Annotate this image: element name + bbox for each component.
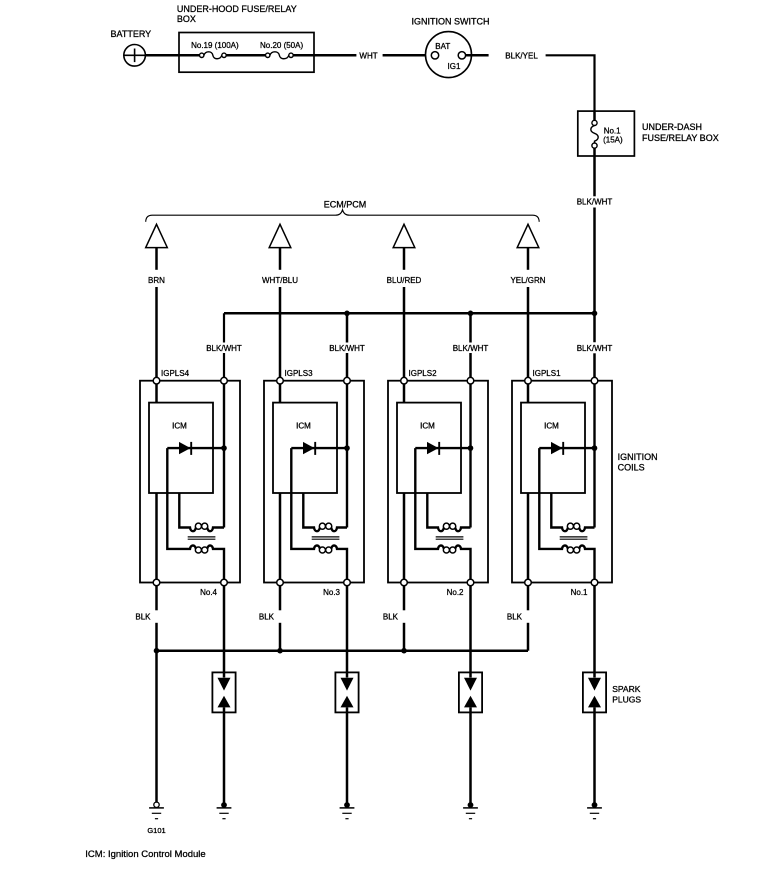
svg-text:UNDER-HOOD FUSE/RELAY: UNDER-HOOD FUSE/RELAY bbox=[177, 4, 297, 14]
svg-text:No.2: No.2 bbox=[447, 588, 464, 597]
svg-text:ICM: ICM bbox=[420, 422, 435, 431]
svg-text:YEL/GRN: YEL/GRN bbox=[510, 276, 545, 285]
svg-text:BLK/WHT: BLK/WHT bbox=[577, 344, 613, 353]
svg-text:IGPLS3: IGPLS3 bbox=[285, 369, 314, 378]
svg-text:BLK/YEL: BLK/YEL bbox=[505, 51, 538, 60]
svg-text:ICM: Ignition Control Module: ICM: Ignition Control Module bbox=[85, 849, 205, 860]
svg-text:BLK/WHT: BLK/WHT bbox=[453, 344, 489, 353]
svg-text:No.20 (50A): No.20 (50A) bbox=[260, 41, 303, 50]
svg-text:ICM: ICM bbox=[172, 422, 187, 431]
svg-text:BLK: BLK bbox=[135, 613, 151, 622]
svg-text:WHT/BLU: WHT/BLU bbox=[262, 276, 298, 285]
svg-text:BLU/RED: BLU/RED bbox=[387, 276, 422, 285]
svg-text:No.4: No.4 bbox=[200, 588, 217, 597]
svg-text:IGPLS4: IGPLS4 bbox=[161, 369, 190, 378]
svg-text:COILS: COILS bbox=[618, 463, 645, 473]
svg-text:UNDER-DASH: UNDER-DASH bbox=[642, 122, 702, 132]
svg-text:BLK: BLK bbox=[383, 613, 399, 622]
svg-text:IG1: IG1 bbox=[448, 62, 461, 71]
svg-text:ICM: ICM bbox=[544, 422, 559, 431]
svg-text:IGNITION SWITCH: IGNITION SWITCH bbox=[412, 16, 490, 26]
svg-text:BLK/WHT: BLK/WHT bbox=[329, 344, 365, 353]
svg-text:ECM/PCM: ECM/PCM bbox=[324, 200, 367, 210]
svg-text:ICM: ICM bbox=[296, 422, 311, 431]
svg-text:WHT: WHT bbox=[359, 51, 377, 60]
svg-text:IGPLS1: IGPLS1 bbox=[533, 369, 562, 378]
svg-text:BAT: BAT bbox=[435, 42, 450, 51]
svg-text:BLK: BLK bbox=[259, 613, 275, 622]
svg-text:No.3: No.3 bbox=[323, 588, 340, 597]
svg-text:No.1: No.1 bbox=[571, 588, 588, 597]
svg-text:BLK: BLK bbox=[507, 613, 523, 622]
svg-text:IGPLS2: IGPLS2 bbox=[409, 369, 438, 378]
svg-text:BRN: BRN bbox=[148, 276, 165, 285]
svg-text:FUSE/RELAY BOX: FUSE/RELAY BOX bbox=[642, 133, 719, 143]
svg-text:SPARK: SPARK bbox=[612, 684, 641, 694]
svg-text:PLUGS: PLUGS bbox=[612, 695, 641, 705]
svg-text:BLK/WHT: BLK/WHT bbox=[206, 344, 242, 353]
svg-text:BLK/WHT: BLK/WHT bbox=[577, 198, 613, 207]
svg-text:No.19 (100A): No.19 (100A) bbox=[191, 41, 239, 50]
svg-text:BATTERY: BATTERY bbox=[111, 29, 152, 39]
svg-text:(15A): (15A) bbox=[603, 135, 623, 144]
svg-text:No.1: No.1 bbox=[604, 127, 621, 136]
svg-text:IGNITION: IGNITION bbox=[618, 452, 658, 462]
svg-text:BOX: BOX bbox=[177, 14, 196, 24]
svg-text:G101: G101 bbox=[147, 826, 165, 835]
